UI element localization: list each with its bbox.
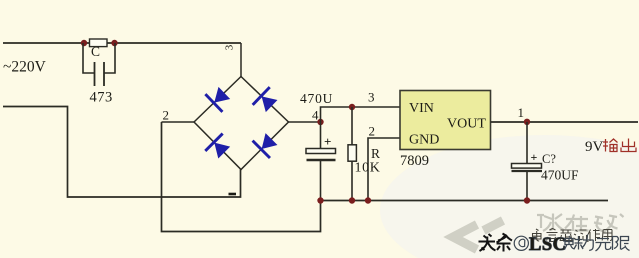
svg-text:1: 1 — [518, 105, 525, 120]
node junction node 1 — [524, 119, 530, 125]
node junction J2 — [111, 40, 117, 46]
diode D3 bottom-left — [205, 134, 233, 162]
svg-text:7809: 7809 — [400, 153, 429, 169]
watermark headline CJK outlined — [565, 235, 630, 252]
regulator U1 7809 — [400, 91, 491, 150]
capacitor C2 470U polarized — [306, 122, 336, 201]
node junction J1 — [81, 40, 87, 46]
diode D1 top-left — [205, 84, 233, 112]
resistor R1 — [348, 107, 356, 201]
wire bypass loop left — [83, 43, 95, 73]
watermark pale wash bottom-right — [380, 135, 639, 258]
diode D4 bottom-right — [253, 130, 281, 158]
svg-text:VIN: VIN — [409, 101, 434, 116]
wire bridge right lead to node 4 — [289, 121, 321, 123]
node junction node 4 — [317, 119, 323, 125]
svg-text:VOUT: VOUT — [447, 117, 486, 132]
diode D2 top-right — [253, 87, 281, 115]
node junction rail-cap3 — [524, 197, 530, 203]
svg-text:9V: 9V — [585, 139, 604, 155]
svg-text:3: 3 — [224, 44, 236, 50]
svg-text:3: 3 — [368, 90, 375, 105]
svg-text:R: R — [371, 146, 380, 161]
wire riser node4 to VIN line — [321, 107, 401, 122]
node junction rail-resistor — [349, 197, 355, 203]
watermark caption text — [533, 229, 613, 242]
node junction rail-gnd — [365, 197, 371, 203]
svg-text:+: + — [531, 150, 538, 164]
svg-text:~220V: ~220V — [3, 59, 47, 76]
svg-text:470UF: 470UF — [541, 168, 579, 183]
wire bridge top lead — [240, 43, 242, 77]
wire GND line — [368, 138, 400, 201]
svg-text:C: C — [91, 44, 100, 59]
capacitor C1 473 plates — [95, 62, 105, 86]
watermark headline at-sign — [514, 236, 528, 250]
svg-text:473: 473 — [90, 90, 113, 106]
svg-text:GND: GND — [409, 133, 439, 148]
label minus of bridge — [229, 193, 237, 196]
watermark headline toutiao — [479, 234, 513, 252]
capacitor C1 series box symbol — [90, 39, 108, 47]
wire top AC line — [3, 42, 241, 44]
watermark gray text — [537, 214, 624, 233]
svg-text:2: 2 — [369, 124, 376, 139]
svg-text:+: + — [324, 134, 331, 149]
svg-text:470U: 470U — [300, 91, 333, 106]
node junction rail-cap2 — [317, 197, 323, 203]
wire AC return lower-left — [3, 107, 241, 198]
wire ground rail — [319, 200, 609, 202]
label 9V output — [585, 139, 636, 156]
capacitor C3 470UF polarized — [512, 122, 543, 201]
wire bypass loop right — [104, 43, 115, 73]
watermark gray logo chevron — [453, 221, 503, 250]
bridge rectifier diamond — [194, 77, 289, 170]
wire VOUT output line — [491, 121, 639, 123]
node junction resistor top — [349, 104, 355, 110]
svg-text:LSC: LSC — [529, 235, 567, 255]
svg-text:C?: C? — [542, 152, 556, 166]
wire bridge left lead — [162, 121, 195, 123]
svg-text:2: 2 — [163, 108, 170, 123]
wire loop from node 2 — [162, 122, 321, 232]
